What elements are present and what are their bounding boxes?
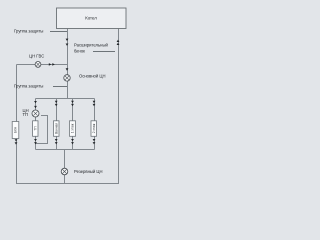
svg-text:ЦН ГВС: ЦН ГВС bbox=[29, 53, 44, 58]
svg-text:ТП: ТП bbox=[33, 126, 37, 131]
svg-text:Основной ЦН: Основной ЦН bbox=[79, 74, 105, 79]
svg-text:Котел: Котел bbox=[85, 16, 97, 21]
svg-text:ТП: ТП bbox=[23, 112, 29, 117]
svg-text:Ванная: Ванная bbox=[54, 123, 58, 134]
svg-text:бачок: бачок bbox=[74, 49, 85, 54]
svg-text:1 этаж: 1 этаж bbox=[71, 123, 75, 133]
svg-text:Расширительный: Расширительный bbox=[74, 43, 108, 48]
svg-text:2 этаж: 2 этаж bbox=[92, 123, 96, 133]
svg-text:Группа защиты: Группа защиты bbox=[14, 84, 43, 89]
svg-text:БКН: БКН bbox=[14, 126, 18, 133]
svg-text:Группа защиты: Группа защиты bbox=[14, 29, 43, 34]
svg-text:Резервный ЦН: Резервный ЦН bbox=[74, 169, 103, 174]
